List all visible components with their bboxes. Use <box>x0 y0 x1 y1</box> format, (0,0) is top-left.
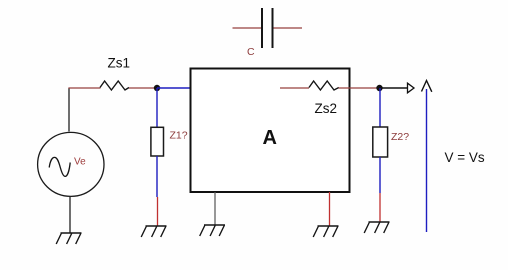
wire node 1 to amplifier input (blue) <box>157 87 190 89</box>
svg-text:Ve: Ve <box>74 157 86 168</box>
svg-text:Z1?: Z1? <box>170 130 188 142</box>
source Ve circle <box>38 132 104 196</box>
capacitor C right plate <box>272 8 274 48</box>
source Ve sine symbol <box>49 157 70 176</box>
ground under amplifier pin 2 <box>313 226 338 237</box>
wire Z1 bottom (blue) <box>156 156 158 197</box>
svg-text:A: A <box>263 127 277 149</box>
impedance Z1 rectangle <box>151 127 164 156</box>
capacitor C right wire <box>274 27 303 29</box>
wire Z1 to ground (red) <box>157 197 159 226</box>
wire resistor Zs1 to node 1 (maroon) <box>129 87 156 89</box>
voltage arrow head (chevron) <box>422 81 432 92</box>
wire Z2 bottom (blue) <box>379 157 381 193</box>
wire node 2 down to Z2 (blue) <box>379 88 381 128</box>
output arrow (open triangle) <box>408 83 415 93</box>
amplifier pin 1 wire to ground (gray) <box>214 192 216 225</box>
ground under Z1 <box>141 226 166 237</box>
amplifier block A <box>191 69 350 193</box>
amplifier pin 2 wire to ground (red) <box>329 192 331 226</box>
voltage arrow line (blue) <box>426 89 428 232</box>
svg-text:C: C <box>247 46 255 58</box>
node 2 junction dot <box>376 85 382 91</box>
ground under Z2 <box>364 222 389 233</box>
resistor Zs1 <box>100 81 129 90</box>
wire resistor Zs2 to node 2 (maroon) <box>339 87 379 89</box>
capacitor C left plate <box>261 8 263 48</box>
wire node 1 down to Z1 (blue) <box>156 88 158 128</box>
wire amplifier output to resistor Zs2 (maroon) <box>280 87 309 89</box>
wire node to resistor Zs1 (maroon) <box>68 87 100 89</box>
ground under amplifier pin 1 <box>200 225 225 236</box>
svg-text:V = Vs: V = Vs <box>445 150 485 165</box>
ground under Ve <box>56 233 81 244</box>
wire node 2 to output arrow (black) <box>380 87 408 89</box>
wire source Ve bottom to ground (black) <box>69 196 71 233</box>
svg-text:Zs1: Zs1 <box>108 56 131 71</box>
svg-text:Zs2: Zs2 <box>315 101 338 116</box>
wire from source Ve top to node A (vertical black) <box>68 88 70 132</box>
resistor Zs2 <box>309 81 339 90</box>
impedance Z2 rectangle <box>373 127 388 157</box>
wire Z2 to ground (red) <box>379 193 381 222</box>
capacitor C left wire <box>233 27 262 29</box>
node 1 junction dot <box>154 85 160 91</box>
svg-text:Z2?: Z2? <box>391 131 409 143</box>
